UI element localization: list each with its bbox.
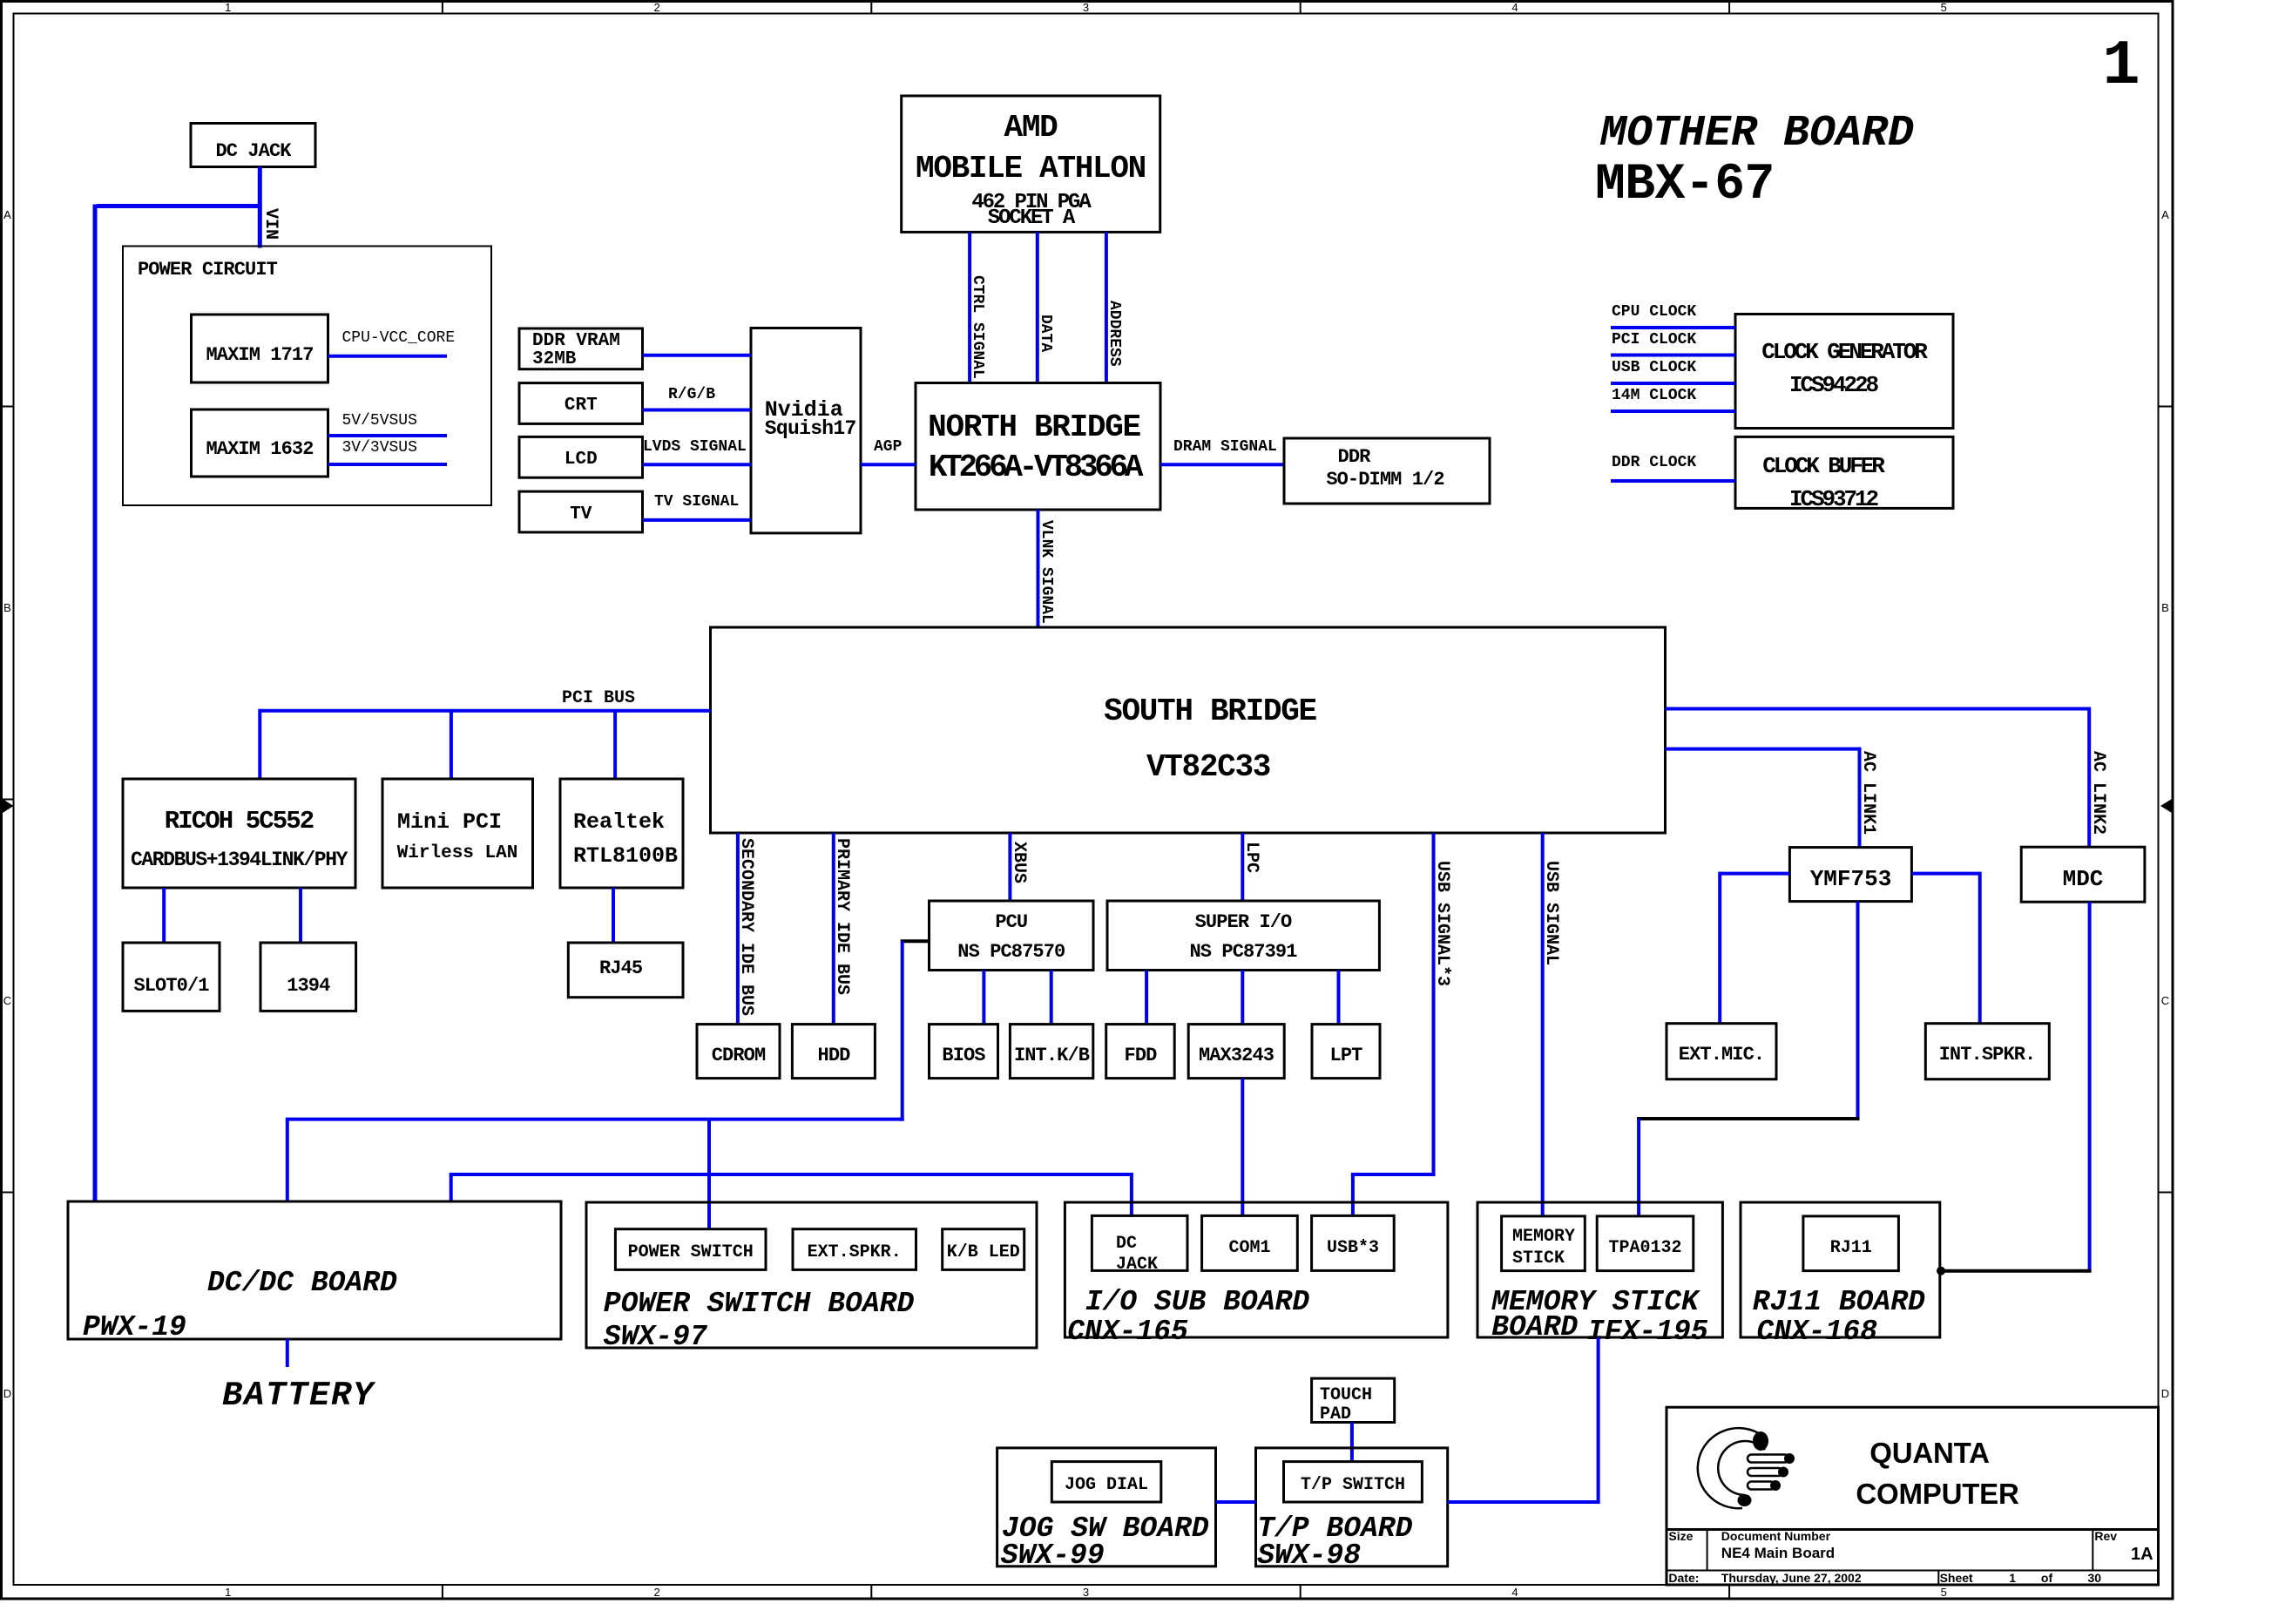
wire PCU black entry segment xyxy=(901,939,930,943)
wire PRIMARY IDE BUS xyxy=(832,833,835,1025)
svg-text:2: 2 xyxy=(653,1586,659,1599)
svg-text:SWX-99: SWX-99 xyxy=(1001,1539,1105,1572)
wire USB SIGNAL*3 vertical xyxy=(1432,833,1436,1174)
svg-text:Size: Size xyxy=(1668,1529,1693,1543)
svg-text:IFX-195: IFX-195 xyxy=(1587,1316,1708,1348)
svg-text:HDD: HDD xyxy=(818,1045,851,1066)
svg-text:K/B LED: K/B LED xyxy=(947,1242,1020,1262)
svg-text:R/G/B: R/G/B xyxy=(668,386,715,403)
svg-text:COM1: COM1 xyxy=(1228,1238,1270,1258)
svg-text:JOG DIAL: JOG DIAL xyxy=(1065,1475,1148,1495)
svg-text:TOUCH: TOUCH xyxy=(1320,1385,1372,1405)
block MEMORY STICK xyxy=(1502,1216,1585,1271)
svg-text:DDR CLOCK: DDR CLOCK xyxy=(1612,454,1696,471)
svg-text:INT.SPKR.: INT.SPKR. xyxy=(1939,1044,2036,1066)
wire power link horizontal Y1 xyxy=(286,1118,904,1121)
svg-text:PWX-19: PWX-19 xyxy=(83,1311,186,1343)
svg-text:MAXIM 1632: MAXIM 1632 xyxy=(206,438,313,460)
wire LVDS LCD to Nvidia xyxy=(643,463,752,466)
svg-text:Document Number: Document Number xyxy=(1721,1529,1831,1543)
svg-text:1394: 1394 xyxy=(287,975,330,997)
wire JOG to T/P board xyxy=(1216,1500,1256,1504)
svg-text:USB*3: USB*3 xyxy=(1327,1238,1379,1258)
board MEMORY STICK BOARD IFX-195 xyxy=(1477,1202,1722,1337)
svg-text:3: 3 xyxy=(1083,1,1089,14)
svg-text:5: 5 xyxy=(1941,1,1947,14)
block EXT.SPKR. xyxy=(793,1229,916,1270)
wire XBUS xyxy=(1008,833,1011,901)
svg-text:Date:: Date: xyxy=(1668,1571,1699,1585)
block DDR SO-DIMM 1/2 xyxy=(1284,438,1490,504)
board JOG SW BOARD SWX-99 xyxy=(997,1448,1216,1566)
wire YMF753 to INT.SPKR horizontal xyxy=(1912,872,1980,876)
svg-text:4: 4 xyxy=(1511,1586,1518,1599)
wire DATA cpu bus xyxy=(1036,232,1039,382)
svg-text:AC LINK1: AC LINK1 xyxy=(1858,751,1878,835)
svg-text:INT.K/B: INT.K/B xyxy=(1014,1045,1090,1066)
svg-text:EXT.MIC.: EXT.MIC. xyxy=(1679,1044,1764,1066)
board RJ11 BOARD CNX-168 xyxy=(1741,1202,1940,1337)
svg-text:RTL8100B: RTL8100B xyxy=(573,843,678,869)
block DC JACK xyxy=(191,124,315,167)
wire 5V/5VSUS stub xyxy=(328,434,448,437)
wire CPU-VCC_CORE stub xyxy=(328,355,448,358)
block EXT.MIC. xyxy=(1667,1024,1776,1079)
frame column tick marks top xyxy=(443,2,1729,14)
frame column tick marks bottom xyxy=(443,1585,1729,1599)
frame row tick marks left xyxy=(2,407,14,1193)
logo QUANTA swirl xyxy=(1698,1428,1765,1508)
svg-text:AMD: AMD xyxy=(1004,110,1058,145)
svg-text:NS PC87391: NS PC87391 xyxy=(1189,941,1297,963)
block Mini PCI Wirless LAN xyxy=(382,779,533,888)
svg-text:JACK: JACK xyxy=(1116,1255,1158,1275)
svg-text:SECONDARY IDE BUS: SECONDARY IDE BUS xyxy=(736,838,756,1016)
svg-text:Sheet: Sheet xyxy=(1940,1571,1973,1585)
svg-text:TV: TV xyxy=(570,504,592,524)
block POWER CIRCUIT xyxy=(123,247,491,506)
wire drop to POWER SWITCH board xyxy=(707,1120,711,1229)
wire TV SIGNAL to Nvidia xyxy=(643,518,752,522)
wire blue drop to TPA0132 xyxy=(1637,1119,1640,1216)
svg-text:BIOS: BIOS xyxy=(942,1045,985,1066)
svg-text:Thursday, June 27, 2002: Thursday, June 27, 2002 xyxy=(1721,1571,1862,1585)
wire AC LINK1 horizontal xyxy=(1666,748,1860,751)
svg-text:CNX-165: CNX-165 xyxy=(1067,1316,1188,1348)
wire AGP Nvidia to north bridge xyxy=(861,463,916,466)
svg-text:5V/5VSUS: 5V/5VSUS xyxy=(342,412,417,430)
svg-text:DC: DC xyxy=(1116,1234,1137,1254)
svg-text:MOTHER BOARD: MOTHER BOARD xyxy=(1599,109,1914,159)
svg-text:1A: 1A xyxy=(2131,1545,2153,1564)
svg-text:C: C xyxy=(2161,994,2169,1007)
svg-text:DRAM SIGNAL: DRAM SIGNAL xyxy=(1173,438,1277,456)
wire LPC xyxy=(1241,833,1244,901)
svg-text:CPU CLOCK: CPU CLOCK xyxy=(1612,303,1696,321)
block INT.K/B xyxy=(1010,1025,1092,1079)
svg-text:COMPUTER: COMPUTER xyxy=(1856,1478,2019,1510)
block T/P SWITCH xyxy=(1284,1462,1423,1502)
svg-text:RJ45: RJ45 xyxy=(599,957,643,979)
block CLOCK BUFER ICS93712 xyxy=(1735,436,1953,508)
svg-text:MOBILE ATHLON: MOBILE ATHLON xyxy=(916,151,1146,186)
wire PCI BUS horizontal xyxy=(259,709,711,713)
block CLOCK GENERATOR ICS94228 xyxy=(1735,315,1953,429)
block HDD xyxy=(792,1025,875,1079)
frame row labels right A-D xyxy=(2161,208,2169,1400)
svg-text:Mini PCI: Mini PCI xyxy=(397,809,502,835)
svg-text:T/P SWITCH: T/P SWITCH xyxy=(1301,1475,1405,1495)
wire link horizontal Y2 xyxy=(450,1173,1133,1176)
svg-text:PCI BUS: PCI BUS xyxy=(562,688,635,708)
svg-text:MEMORY: MEMORY xyxy=(1512,1227,1575,1247)
block MAX3243 xyxy=(1188,1025,1284,1079)
wire RICOH to SLOT0/1 xyxy=(162,888,166,943)
svg-text:3: 3 xyxy=(1083,1586,1089,1599)
svg-text:VT82C33: VT82C33 xyxy=(1146,749,1270,785)
block RJ45 xyxy=(568,943,683,998)
block CRT xyxy=(519,383,643,424)
svg-text:5: 5 xyxy=(1941,1586,1947,1599)
svg-text:ICS93712: ICS93712 xyxy=(1789,486,1879,512)
svg-text:STICK: STICK xyxy=(1512,1248,1565,1269)
block TPA0132 xyxy=(1597,1216,1694,1271)
block MDC xyxy=(2021,847,2145,902)
wire PCI BUS drop to RICOH xyxy=(258,709,261,779)
wire RICOH to 1394 xyxy=(299,888,302,943)
title block outer box xyxy=(1667,1407,2159,1585)
svg-text:RJ11 BOARD: RJ11 BOARD xyxy=(1753,1286,1925,1318)
svg-text:DC JACK: DC JACK xyxy=(215,140,292,162)
svg-text:LPT: LPT xyxy=(1330,1045,1363,1066)
svg-text:CLOCK BUFER: CLOCK BUFER xyxy=(1762,453,1885,479)
svg-text:POWER CIRCUIT: POWER CIRCUIT xyxy=(138,259,278,281)
block CDROM xyxy=(697,1025,780,1079)
wire TOUCH PAD to T/P SWITCH xyxy=(1350,1423,1354,1462)
wire YMF753 to EXT.MIC horizontal xyxy=(1720,872,1789,876)
wire Y2 drop to IO SUB DC JACK xyxy=(1130,1174,1133,1215)
svg-text:BOARD: BOARD xyxy=(1491,1311,1578,1343)
svg-text:DDR VRAM: DDR VRAM xyxy=(532,331,620,351)
svg-text:32MB: 32MB xyxy=(532,349,577,369)
wire SECONDARY IDE BUS xyxy=(736,833,740,1025)
wire USB SIGNAL*3 drop to USB*3 xyxy=(1351,1174,1355,1215)
svg-text:LCD: LCD xyxy=(565,450,598,470)
block YMF753 xyxy=(1789,848,1911,902)
svg-text:DC/DC BOARD: DC/DC BOARD xyxy=(207,1267,397,1299)
svg-text:NS PC87570: NS PC87570 xyxy=(957,941,1065,963)
svg-text:SLOT0/1: SLOT0/1 xyxy=(133,975,209,997)
svg-text:Wirless LAN: Wirless LAN xyxy=(397,843,518,863)
block DDR VRAM 32MB xyxy=(519,328,643,369)
wire PCU-link vertical blue xyxy=(901,941,904,1120)
svg-text:XBUS: XBUS xyxy=(1009,842,1029,883)
block Realtek RTL8100B xyxy=(560,779,683,888)
block TOUCH PAD xyxy=(1312,1378,1395,1422)
svg-text:of: of xyxy=(2041,1571,2053,1585)
svg-text:PRIMARY IDE BUS: PRIMARY IDE BUS xyxy=(832,838,852,995)
svg-text:CDROM: CDROM xyxy=(712,1045,766,1066)
svg-text:ICS94228: ICS94228 xyxy=(1789,372,1879,398)
svg-text:NE4 Main Board: NE4 Main Board xyxy=(1721,1545,1835,1561)
wire AC LINK2 horizontal xyxy=(1666,707,2090,711)
wire 14M CLOCK xyxy=(1611,409,1735,413)
wire VLNK SIGNAL north to south bridge xyxy=(1037,510,1040,627)
svg-text:VLNK SIGNAL: VLNK SIGNAL xyxy=(1038,520,1055,624)
block INT.SPKR. xyxy=(1925,1024,2049,1079)
svg-text:SUPER I/O: SUPER I/O xyxy=(1195,911,1292,933)
svg-text:CARDBUS+1394LINK/PHY: CARDBUS+1394LINK/PHY xyxy=(131,849,348,871)
svg-text:CRT: CRT xyxy=(565,396,598,416)
wire MAX3243 to COM1 xyxy=(1241,1079,1244,1216)
block DC JACK io sub xyxy=(1092,1215,1187,1270)
svg-text:CPU-VCC_CORE: CPU-VCC_CORE xyxy=(342,329,456,347)
board I/O SUB BOARD CNX-165 xyxy=(1065,1202,1448,1337)
svg-text:B: B xyxy=(3,601,11,614)
wire SUPER I/O to MAX3243 xyxy=(1241,971,1244,1025)
wire ADDRESS cpu bus xyxy=(1105,232,1108,382)
wire USB SIGNAL*3 jog horizontal xyxy=(1351,1173,1436,1176)
block BIOS xyxy=(930,1025,998,1079)
svg-text:SOCKET A: SOCKET A xyxy=(988,206,1076,230)
block SOUTH BRIDGE VT82C33 xyxy=(711,627,1666,833)
junction dot RJ11 BOARD right edge xyxy=(1937,1267,1945,1276)
svg-text:1: 1 xyxy=(225,1586,231,1599)
frame column labels top 1-5 xyxy=(225,1,1947,14)
svg-text:Realtek: Realtek xyxy=(573,809,665,835)
block MAXIM 1717 xyxy=(192,315,328,382)
wire YMF753 bottom vertical xyxy=(1856,902,1860,1120)
wire DRAM SIGNAL north bridge to SO-DIMM xyxy=(1160,463,1284,466)
wire 3V/3VSUS stub xyxy=(328,463,448,466)
svg-text:CNX-168: CNX-168 xyxy=(1756,1316,1877,1348)
svg-text:MAX3243: MAX3243 xyxy=(1199,1045,1274,1066)
block LCD xyxy=(519,436,643,477)
svg-text:EXT.SPKR.: EXT.SPKR. xyxy=(808,1242,902,1262)
wire PCU to INT.K/B xyxy=(1050,971,1053,1025)
svg-text:USB SIGNAL: USB SIGNAL xyxy=(1541,861,1561,965)
wire MDC bottom vertical xyxy=(2088,902,2092,1271)
svg-text:MBX-67: MBX-67 xyxy=(1595,157,1775,213)
svg-text:CLOCK GENERATOR: CLOCK GENERATOR xyxy=(1761,339,1928,365)
svg-text:2: 2 xyxy=(653,1,659,14)
svg-text:SWX-98: SWX-98 xyxy=(1257,1539,1361,1572)
svg-text:C: C xyxy=(3,994,11,1007)
svg-text:YMF753: YMF753 xyxy=(1810,866,1892,892)
block RJ11 xyxy=(1803,1216,1899,1271)
svg-text:PAD: PAD xyxy=(1320,1404,1351,1424)
svg-text:KT266A-VT8366A: KT266A-VT8366A xyxy=(929,450,1144,485)
wire PCI CLOCK xyxy=(1611,354,1735,357)
svg-text:3V/3VSUS: 3V/3VSUS xyxy=(342,439,417,457)
wire SUPER I/O to FDD xyxy=(1145,971,1148,1025)
svg-text:ADDRESS: ADDRESS xyxy=(1105,301,1123,367)
board T/P BOARD SWX-98 xyxy=(1256,1448,1448,1566)
wire PCI BUS drop to Mini PCI xyxy=(450,711,453,779)
block Nvidia Squish17 xyxy=(751,328,861,533)
svg-text:AGP: AGP xyxy=(874,438,903,456)
frame zone arrow right xyxy=(2160,799,2172,813)
block LPT xyxy=(1312,1025,1380,1079)
block POWER SWITCH xyxy=(615,1229,766,1270)
svg-text:LPC: LPC xyxy=(1241,842,1261,873)
block SUPER I/O NS PC87391 xyxy=(1107,901,1379,971)
wire DC/DC to BATTERY stub xyxy=(286,1339,289,1367)
block AMD MOBILE ATHLON xyxy=(902,96,1160,232)
svg-text:LVDS SIGNAL: LVDS SIGNAL xyxy=(643,438,747,456)
wire USB SIGNAL to memory stick xyxy=(1541,833,1545,1216)
wire Y2 drop to DC/DC BOARD xyxy=(450,1174,453,1201)
wire CTRL SIGNAL cpu bus xyxy=(968,232,971,382)
block FDD xyxy=(1106,1025,1175,1079)
svg-text:MAXIM 1717: MAXIM 1717 xyxy=(206,344,313,366)
frame row tick marks right xyxy=(2159,407,2174,1193)
block TV xyxy=(519,491,643,532)
svg-text:VIN: VIN xyxy=(260,208,281,240)
block PCU NS PC87570 xyxy=(930,901,1094,971)
svg-text:AC LINK2: AC LINK2 xyxy=(2088,751,2108,835)
block MAXIM 1632 xyxy=(192,409,328,477)
board DC/DC BOARD PWX-19 xyxy=(68,1201,561,1339)
svg-text:QUANTA: QUANTA xyxy=(1869,1437,1990,1469)
svg-text:30: 30 xyxy=(2088,1571,2102,1585)
svg-text:TV SIGNAL: TV SIGNAL xyxy=(654,493,739,511)
svg-text:POWER SWITCH BOARD: POWER SWITCH BOARD xyxy=(604,1288,915,1320)
wire USB CLOCK xyxy=(1611,382,1735,385)
frame row labels left A-D xyxy=(3,208,11,1400)
wire Realtek to RJ45 xyxy=(612,888,615,943)
logo bars xyxy=(1748,1455,1788,1490)
wire AC LINK2 vertical to MDC xyxy=(2087,707,2091,848)
wire memory stick board down vertical xyxy=(1597,1337,1600,1504)
svg-text:NORTH BRIDGE: NORTH BRIDGE xyxy=(928,409,1140,445)
svg-text:MDC: MDC xyxy=(2063,866,2104,892)
svg-text:A: A xyxy=(2161,208,2169,221)
svg-text:1: 1 xyxy=(2009,1571,2016,1585)
wire PCU to BIOS xyxy=(982,971,985,1025)
svg-text:USB SIGNAL*3: USB SIGNAL*3 xyxy=(1432,861,1452,986)
svg-text:CTRL SIGNAL: CTRL SIGNAL xyxy=(969,275,986,379)
svg-text:USB CLOCK: USB CLOCK xyxy=(1612,359,1696,376)
svg-text:TPA0132: TPA0132 xyxy=(1608,1238,1681,1258)
svg-text:RJ11: RJ11 xyxy=(1830,1238,1872,1258)
wire audio link black horizontal xyxy=(1637,1117,1859,1120)
svg-text:BATTERY: BATTERY xyxy=(222,1377,376,1415)
wire YMF753 to INT.SPKR vertical xyxy=(1978,872,1982,1024)
block K/B LED xyxy=(943,1229,1024,1270)
svg-text:14M CLOCK: 14M CLOCK xyxy=(1612,387,1696,404)
wire YMF753 to EXT.MIC vertical xyxy=(1718,872,1721,1024)
block USB*3 xyxy=(1312,1215,1395,1270)
wire T/P board to memory stick horizontal xyxy=(1448,1500,1600,1504)
svg-text:DDR: DDR xyxy=(1338,446,1372,468)
svg-text:RICOH 5C552: RICOH 5C552 xyxy=(165,807,314,836)
wire DDR VRAM to Nvidia xyxy=(643,354,752,357)
block JOG DIAL xyxy=(1051,1462,1161,1502)
wire VIN long vertical to DC/DC BOARD xyxy=(93,205,98,1202)
wire drop to DC/DC BOARD left xyxy=(286,1120,289,1201)
svg-text:DATA: DATA xyxy=(1037,315,1054,352)
svg-text:Squish17: Squish17 xyxy=(765,417,856,440)
block SLOT0/1 xyxy=(123,943,220,1011)
wire AC LINK1 vertical to YMF753 xyxy=(1858,748,1862,848)
svg-text:SO-DIMM 1/2: SO-DIMM 1/2 xyxy=(1326,469,1443,491)
svg-text:D: D xyxy=(3,1387,11,1400)
svg-text:SOUTH BRIDGE: SOUTH BRIDGE xyxy=(1104,694,1316,729)
frame zone arrow left xyxy=(3,799,14,813)
svg-text:4: 4 xyxy=(1511,1,1518,14)
svg-text:POWER SWITCH: POWER SWITCH xyxy=(628,1242,754,1262)
svg-text:B: B xyxy=(2161,601,2169,614)
wire VIN vertical from DC JACK xyxy=(258,167,262,248)
svg-text:D: D xyxy=(2161,1387,2169,1400)
wire DDR CLOCK xyxy=(1611,479,1735,483)
svg-text:FDD: FDD xyxy=(1125,1045,1158,1066)
wire CPU CLOCK xyxy=(1611,326,1735,329)
block COM1 xyxy=(1202,1215,1298,1270)
block RICOH 5C552 CARDBUS+1394LINK/PHY xyxy=(123,779,355,888)
svg-text:1: 1 xyxy=(2102,30,2140,102)
svg-text:PCU: PCU xyxy=(995,911,1027,933)
svg-text:Rev: Rev xyxy=(2094,1529,2117,1543)
wire PCI BUS drop to Realtek xyxy=(613,711,617,779)
svg-text:1: 1 xyxy=(225,1,231,14)
block NORTH BRIDGE KT266A-VT8366A xyxy=(916,383,1160,511)
svg-text:I/O SUB BOARD: I/O SUB BOARD xyxy=(1085,1286,1310,1318)
block 1394 xyxy=(260,943,356,1011)
frame column labels bottom 1-5 xyxy=(225,1586,1947,1599)
svg-text:A: A xyxy=(3,208,11,221)
wire R/G/B CRT to Nvidia xyxy=(643,409,752,412)
wire MDC to RJ11 BOARD black horizontal xyxy=(1939,1269,2092,1273)
svg-text:SWX-97: SWX-97 xyxy=(604,1321,708,1353)
title block divider lines xyxy=(1667,1530,2159,1586)
board POWER SWITCH BOARD SWX-97 xyxy=(586,1202,1037,1348)
svg-text:PCI CLOCK: PCI CLOCK xyxy=(1612,331,1696,348)
wire VIN branch horizontal xyxy=(97,204,261,208)
wire SUPER I/O to LPT xyxy=(1337,971,1341,1025)
